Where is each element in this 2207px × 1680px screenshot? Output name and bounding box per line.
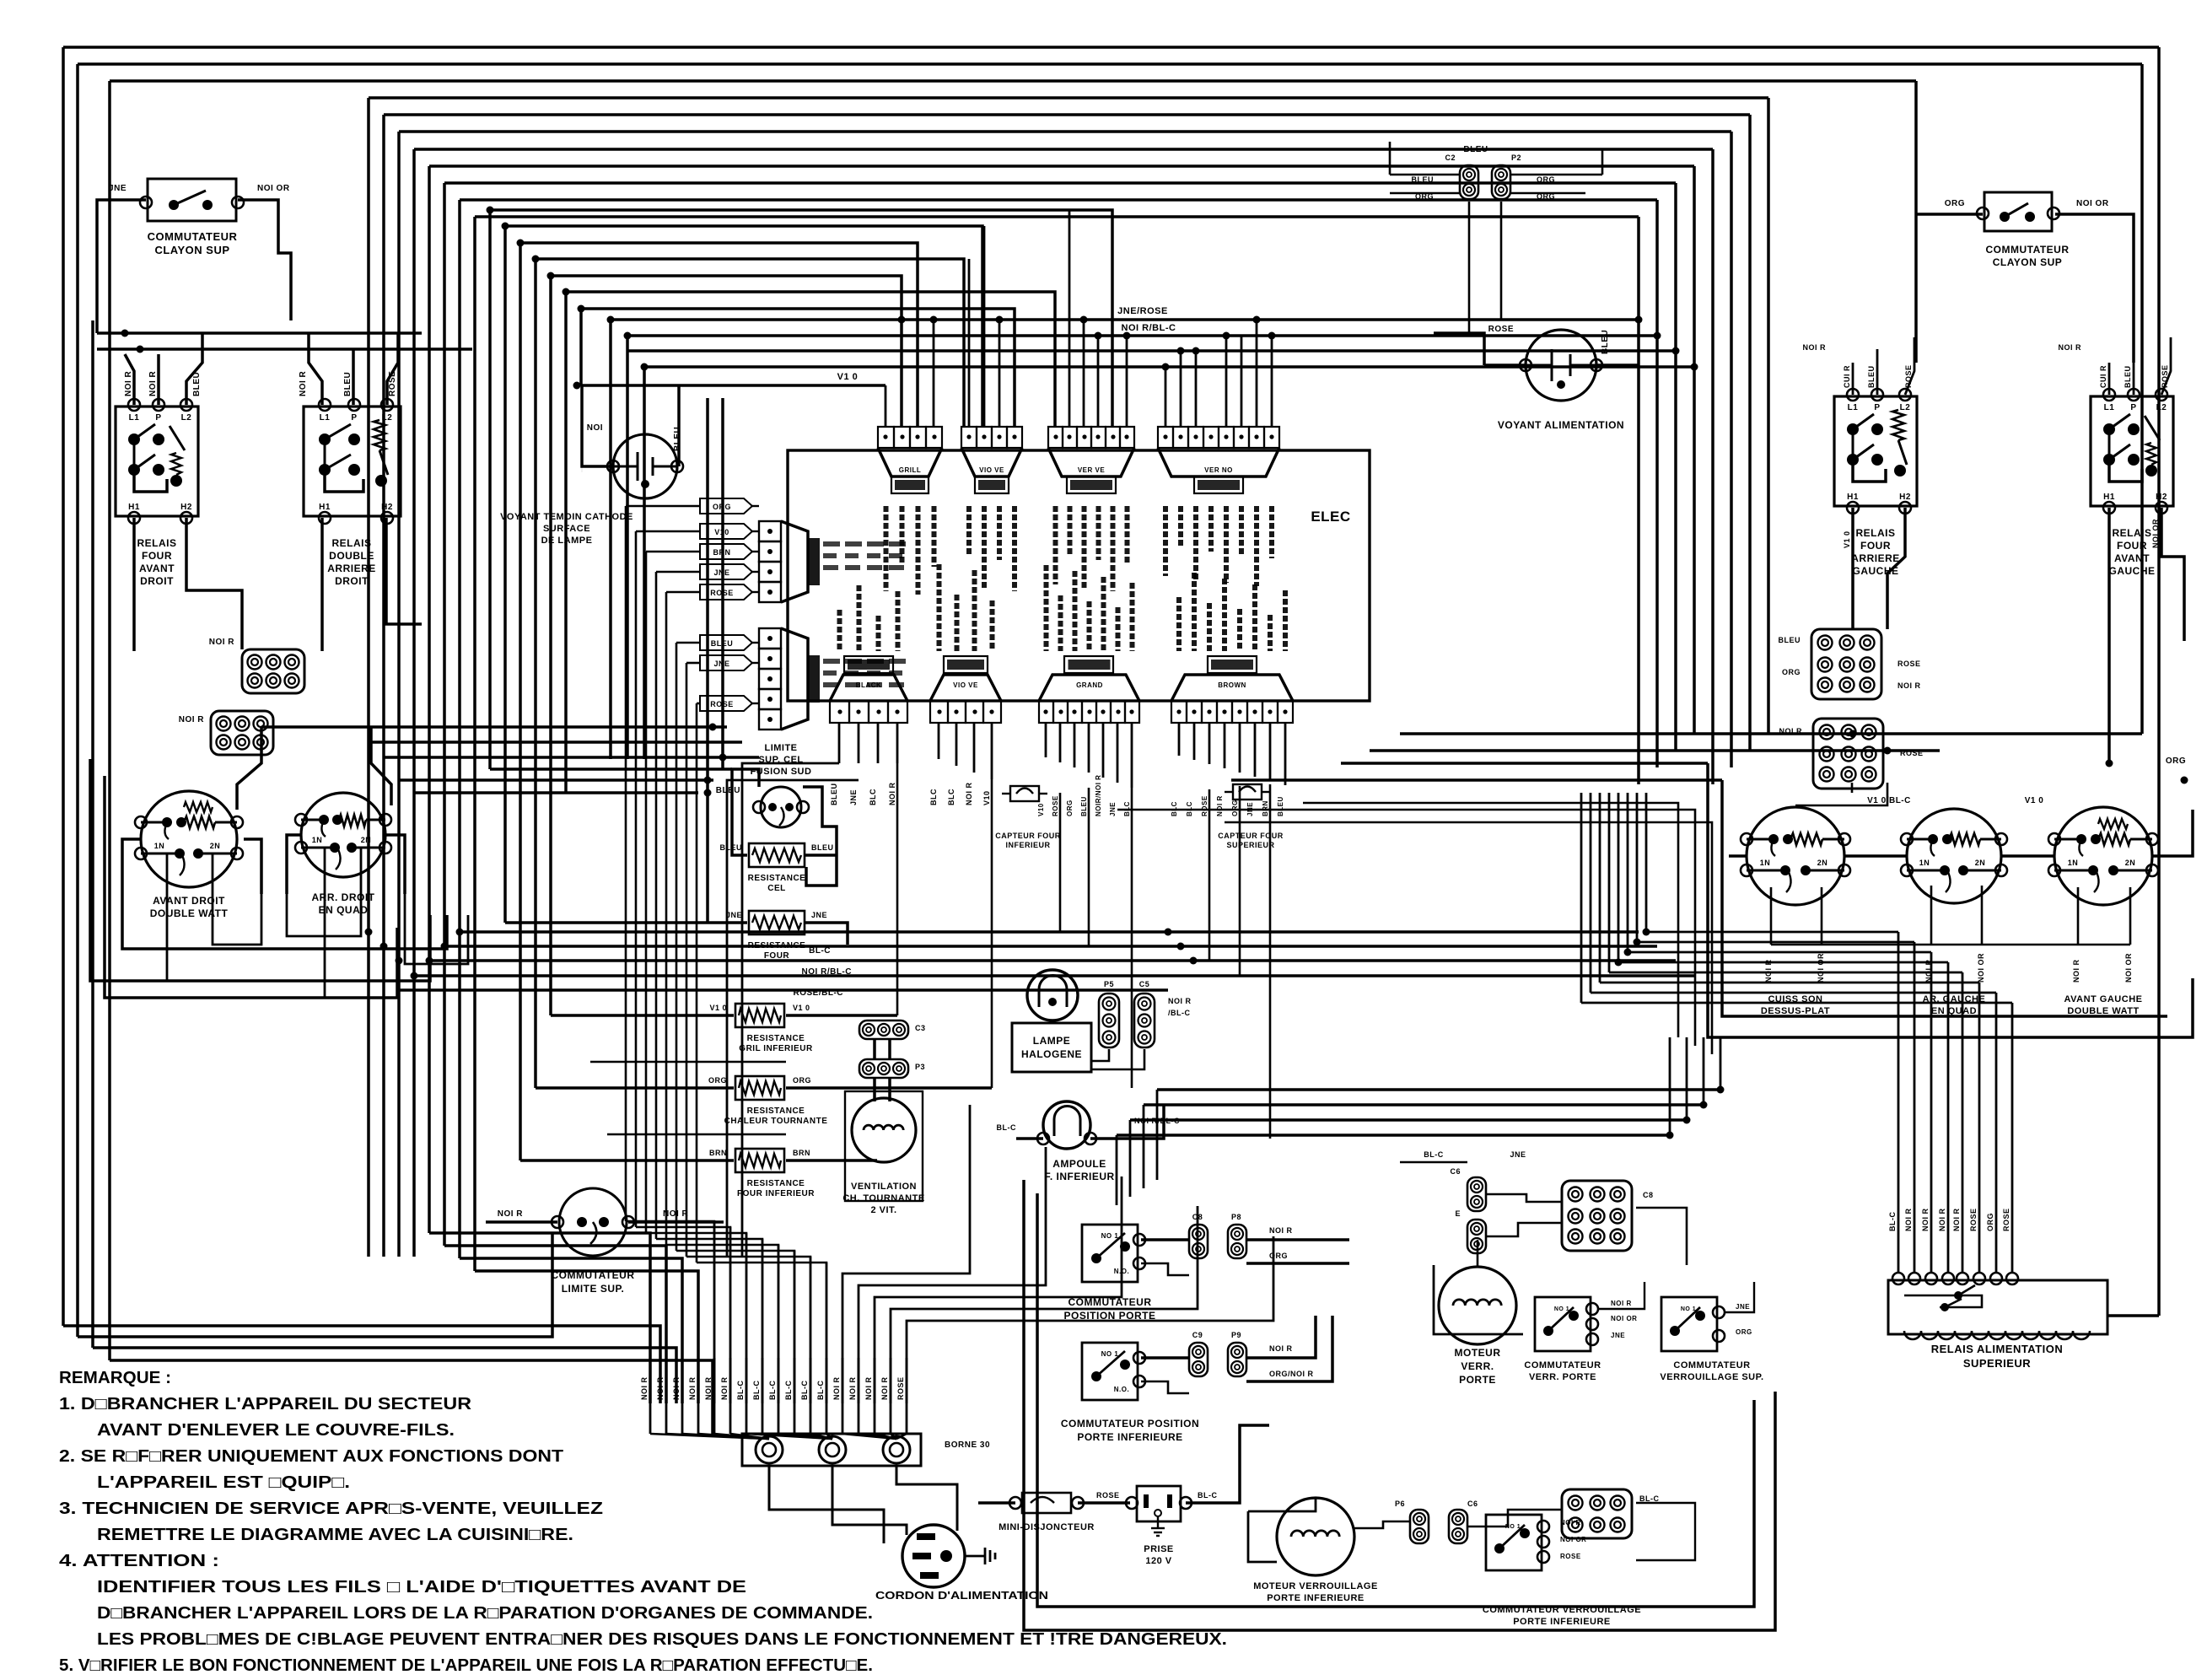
board bottom strips — [830, 701, 849, 723]
svg-text:RELAIS: RELAIS — [2112, 527, 2151, 539]
svg-text:GRILL: GRILL — [899, 466, 922, 474]
svg-text:FOUR INFERIEUR: FOUR INFERIEUR — [737, 1189, 815, 1198]
svg-text:BORNE 30: BORNE 30 — [945, 1440, 990, 1450]
svg-text:VERROUILLAGE SUP.: VERROUILLAGE SUP. — [1660, 1372, 1763, 1382]
svg-text:/BL-C: /BL-C — [1168, 1009, 1191, 1017]
svg-text:NOI R: NOI R — [1216, 795, 1224, 816]
svg-text:COMMUTATEUR: COMMUTATEUR — [1985, 244, 2069, 256]
svg-text:RESISTANCE: RESISTANCE — [747, 1034, 805, 1043]
svg-text:ROSE/BL-C: ROSE/BL-C — [794, 988, 844, 998]
svg-text:CH. TOURNANTE: CH. TOURNANTE — [842, 1193, 924, 1203]
svg-text:COMMUTATEUR: COMMUTATEUR — [1524, 1360, 1601, 1370]
svg-text:PRISE: PRISE — [1144, 1544, 1174, 1554]
wire center vertical bundle mid — [428, 166, 431, 1233]
switch S7 COMMUTATEUR VERROUILLAGE PORTE INFERIEURE — [1486, 1515, 1542, 1570]
wire S4 leads — [1141, 1356, 1189, 1360]
switch S3 COMMUTATEUR POSITION PORTE — [1082, 1225, 1138, 1282]
svg-text:NOI OR: NOI OR — [1977, 953, 1985, 983]
svg-text:NOI R: NOI R — [663, 1209, 689, 1219]
svg-text:ROSE: ROSE — [1969, 1208, 1978, 1231]
resistor R3 RESISTANCE GRIL INFERIEUR — [735, 1004, 784, 1027]
svg-text:BROWN: BROWN — [1218, 681, 1246, 689]
svg-text:P3: P3 — [915, 1063, 925, 1071]
svg-text:2. SE R□F□RER UNIQUEMENT AUX: 2. SE R□F□RER UNIQUEMENT AUX FONCTIONS D… — [59, 1447, 563, 1466]
svg-text:FOUR: FOUR — [1860, 540, 1891, 552]
svg-text:BLEU: BLEU — [1277, 796, 1284, 816]
svg-text:CUI R: CUI R — [1843, 365, 1851, 388]
svg-text:L2: L2 — [382, 413, 393, 423]
wire bundle verticals — [649, 1358, 652, 1434]
svg-text:NOI OR: NOI OR — [1817, 953, 1825, 983]
wire relay right bottoms — [1851, 508, 1854, 629]
outlet PRISE 120V — [1137, 1486, 1181, 1521]
svg-text:AVANT D'ENLEVER LE COUVRE-FILS: AVANT D'ENLEVER LE COUVRE-FILS. — [97, 1421, 455, 1440]
svg-text:P2: P2 — [1511, 153, 1521, 162]
wire mid horizontal buses right of board — [1400, 732, 2142, 735]
svg-text:NOI R: NOI R — [179, 715, 205, 724]
wire V10 line to S1 — [582, 384, 885, 387]
svg-text:BLC: BLC — [947, 789, 955, 805]
element E5 AVANT GAUCHE DOUBLE WATT — [2054, 807, 2152, 905]
svg-text:LES PROBL□MES DE C!BLAGE PEUVE: LES PROBL□MES DE C!BLAGE PEUVENT ENTRA□N… — [97, 1630, 1227, 1649]
svg-text:JNE: JNE — [1611, 1332, 1625, 1339]
switch S2 COMMUTATEUR LIMITE SUP — [559, 1188, 627, 1256]
svg-text:AVANT GAUCHE: AVANT GAUCHE — [2064, 994, 2143, 1004]
svg-text:H1: H1 — [128, 503, 140, 512]
svg-text:L1: L1 — [1848, 403, 1859, 412]
wire routes under board to left — [742, 763, 839, 1257]
svg-text:ORG: ORG — [1066, 800, 1074, 816]
wire bottom strips to right side — [1303, 803, 1678, 1037]
wire staircase horizontals to board top pins — [490, 210, 1112, 427]
connector J7 6-pin — [1562, 1489, 1632, 1538]
svg-text:NOI R: NOI R — [640, 1376, 649, 1400]
svg-text:P: P — [155, 413, 161, 423]
svg-text:NOI R: NOI R — [1952, 1208, 1961, 1231]
svg-text:RELAIS ALIMENTATION: RELAIS ALIMENTATION — [1931, 1343, 2064, 1355]
wire element enclosure left — [90, 759, 430, 981]
svg-text:ROSE: ROSE — [1488, 325, 1514, 334]
wire J7 to right — [1636, 1503, 1695, 1560]
resistor R5 RESISTANCE FOUR INFERIEUR — [735, 1149, 784, 1172]
svg-text:V10: V10 — [982, 790, 991, 805]
svg-text:VER NO: VER NO — [1204, 466, 1233, 474]
board left connector stacks — [759, 521, 781, 541]
wire S3 leads — [1141, 1238, 1189, 1241]
svg-text:ARRIERE: ARRIERE — [327, 563, 376, 574]
wire J8-J9 links — [1795, 783, 1887, 805]
svg-text:RESISTANCE: RESISTANCE — [747, 1179, 805, 1188]
svg-text:CUI R: CUI R — [2099, 365, 2107, 388]
svg-text:AMPOULE: AMPOULE — [1052, 1158, 1106, 1170]
wire motor3 leads — [1354, 1521, 1410, 1528]
svg-text:SURFACE: SURFACE — [543, 524, 590, 534]
svg-text:L1: L1 — [320, 413, 331, 423]
svg-text:120 V: 120 V — [1145, 1556, 1171, 1566]
wire prise to right — [1186, 1425, 1269, 1503]
wire fan region — [873, 1039, 876, 1059]
svg-text:P8: P8 — [1231, 1213, 1241, 1221]
wire S5/S6 leads — [1598, 1282, 1644, 1309]
svg-text:4. ATTENTION :: 4. ATTENTION : — [59, 1552, 219, 1570]
svg-text:NOI R: NOI R — [848, 1376, 857, 1400]
svg-text:BL-C: BL-C — [816, 1381, 825, 1401]
svg-text:ROSE: ROSE — [896, 1376, 905, 1400]
breaker CB1 MINI-DISJONCTEUR — [1022, 1493, 1071, 1513]
svg-text:LAMPE: LAMPE — [1033, 1035, 1071, 1047]
svg-text:NOI R: NOI R — [864, 1376, 873, 1400]
control board U1 ELEC outline — [788, 450, 1370, 701]
svg-text:P5: P5 — [1104, 980, 1114, 988]
connector P2 6-pin — [211, 711, 273, 755]
svg-text:AVANT DROIT: AVANT DROIT — [153, 895, 225, 907]
thermal cutoff F1 LIMITE SUP CEL FUSION SUD — [761, 787, 801, 827]
svg-text:ROSE: ROSE — [2161, 364, 2169, 388]
svg-text:JNE: JNE — [109, 184, 126, 193]
wire S1 leads — [110, 198, 146, 202]
svg-text:2N: 2N — [1975, 859, 1986, 867]
svg-text:1. D□BRANCHER L'APPAREIL DU S: 1. D□BRANCHER L'APPAREIL DU SECTEUR — [59, 1395, 472, 1413]
svg-text:JNE: JNE — [811, 911, 827, 919]
svg-text:ORG: ORG — [1782, 668, 1801, 676]
svg-text:JNE: JNE — [1736, 1303, 1750, 1311]
wire right element enclosures — [1708, 763, 2193, 1037]
connector P1 6-pin — [242, 649, 304, 693]
svg-text:COMMUTATEUR: COMMUTATEUR — [551, 1269, 634, 1281]
svg-text:NOI OR: NOI OR — [257, 184, 290, 193]
svg-text:BL-C: BL-C — [809, 946, 831, 956]
svg-text:V1 0/BL-C: V1 0/BL-C — [1867, 796, 1911, 805]
relay K2 RELAIS DOUBLE ARRIERE DROIT — [304, 407, 401, 516]
pilot DS1 VOYANT TEMOIN CATHODE SURFACE — [613, 434, 677, 498]
ground G1 — [965, 1555, 985, 1558]
svg-text:COMMUTATEUR: COMMUTATEUR — [1068, 1296, 1151, 1308]
wire relay right fans — [1852, 363, 1854, 395]
svg-text:NOI R/BL-C: NOI R/BL-C — [1122, 323, 1176, 333]
svg-text:V1 0: V1 0 — [1843, 530, 1851, 548]
element E3 CUISSON DESSUS-PLAT — [1747, 807, 1844, 905]
svg-text:H2: H2 — [2156, 493, 2167, 502]
svg-text:NOI R: NOI R — [2058, 343, 2081, 352]
svg-text:1N: 1N — [2068, 859, 2079, 867]
svg-text:BLEU: BLEU — [1412, 175, 1435, 184]
svg-text:RELAIS: RELAIS — [1855, 527, 1895, 539]
svg-text:ROSE: ROSE — [1904, 364, 1913, 388]
wire bundle fans — [650, 1434, 769, 1439]
svg-text:BL-C: BL-C — [997, 1123, 1017, 1132]
svg-text:CUISS SON: CUISS SON — [1768, 994, 1822, 1004]
wire resistor leads — [551, 1014, 734, 1017]
resistor R4 RESISTANCE CHALEUR TOURNANTE — [735, 1076, 784, 1100]
svg-text:FOUR: FOUR — [764, 951, 790, 961]
svg-text:BRN: BRN — [1262, 800, 1269, 816]
svg-text:VOYANT ALIMENTATION: VOYANT ALIMENTATION — [1498, 419, 1624, 431]
svg-text:N.O.: N.O. — [1114, 1386, 1129, 1393]
wire top horizontal bus — [63, 46, 2159, 49]
svg-text:NOI OR: NOI OR — [2124, 953, 2133, 983]
svg-text:DOUBLE WATT: DOUBLE WATT — [150, 907, 229, 919]
svg-text:BL-C: BL-C — [736, 1381, 745, 1401]
svg-text:NOI R: NOI R — [672, 1376, 681, 1400]
wire S8 leads — [1916, 213, 1983, 216]
svg-text:5. V□RIFIER LE BON FONCTIONNE: 5. V□RIFIER LE BON FONCTIONNEMENT DE L'A… — [59, 1656, 873, 1675]
svg-text:GRIL INFERIEUR: GRIL INFERIEUR — [739, 1044, 813, 1053]
svg-text:ROSE: ROSE — [2002, 1208, 2011, 1231]
wire bottom left horizontals — [63, 1326, 660, 1403]
connector top 2pins C2 P2 — [1460, 165, 1478, 199]
svg-text:ARR. DROIT: ARR. DROIT — [312, 891, 375, 903]
svg-text:NOI R/BL-C: NOI R/BL-C — [802, 967, 852, 977]
svg-text:DE LAMPE: DE LAMPE — [541, 536, 593, 546]
svg-text:L'APPAREIL EST □QUIP□.: L'APPAREIL EST □QUIP□. — [97, 1473, 350, 1492]
svg-text:VOYANT TEMOIN CATHODE: VOYANT TEMOIN CATHODE — [500, 512, 633, 522]
svg-text:BLC: BLC — [929, 789, 938, 805]
terminal block TB1 — [742, 1434, 921, 1466]
connector J4 3-pin fan lower — [859, 1059, 908, 1078]
svg-text:ELEC: ELEC — [1311, 509, 1350, 525]
svg-text:VIO VE: VIO VE — [953, 681, 978, 689]
svg-text:H1: H1 — [1847, 493, 1859, 502]
svg-text:REMETTRE LE DIAGRAMME AVEC LA: REMETTRE LE DIAGRAMME AVEC LA CUISINI□RE… — [97, 1526, 573, 1544]
connector J6 9-pin door lock — [1562, 1181, 1632, 1251]
svg-text:RELAIS: RELAIS — [137, 537, 176, 549]
svg-text:NOI R: NOI R — [1802, 343, 1826, 352]
svg-text:BL-C: BL-C — [768, 1381, 777, 1401]
svg-text:NOI R: NOI R — [1904, 1208, 1913, 1231]
svg-text:BLEU: BLEU — [1080, 796, 1088, 816]
wire J6 leads — [1486, 1194, 1562, 1202]
svg-text:ROSE: ROSE — [1897, 660, 1921, 668]
wire cutoff loops — [732, 769, 759, 855]
svg-text:PORTE: PORTE — [1459, 1374, 1496, 1386]
wire limite sup leads — [486, 1220, 557, 1224]
svg-text:RESISTANCE: RESISTANCE — [748, 941, 806, 950]
svg-text:COMMUTATEUR: COMMUTATEUR — [148, 230, 238, 243]
svg-text:ROSE: ROSE — [1096, 1491, 1120, 1500]
wire right bundle descends — [1767, 98, 1770, 734]
svg-text:NOI R: NOI R — [656, 1376, 665, 1400]
lamp DS3 AMPOULE F INFERIEUR — [1043, 1101, 1090, 1149]
svg-text:L1: L1 — [129, 413, 140, 423]
svg-text:F. INFERIEUR: F. INFERIEUR — [1044, 1171, 1114, 1182]
relay K5 RELAIS FOUR AVANT GAUCHE — [2091, 396, 2173, 506]
svg-text:NOI R: NOI R — [832, 1376, 841, 1400]
svg-text:ORG: ORG — [1537, 175, 1555, 184]
svg-text:CHALEUR TOURNANTE: CHALEUR TOURNANTE — [724, 1117, 828, 1126]
svg-text:C9: C9 — [1192, 1331, 1203, 1339]
svg-text:2 VIT.: 2 VIT. — [870, 1205, 896, 1215]
svg-text:ORG: ORG — [1986, 1213, 1994, 1231]
svg-text:C8: C8 — [1643, 1191, 1654, 1199]
wire breaker leads — [978, 1501, 1015, 1505]
svg-text:NOI R: NOI R — [1764, 959, 1773, 983]
wire center horizontals to elements — [261, 725, 727, 729]
svg-text:1N: 1N — [1760, 859, 1771, 867]
wire pair stubs down to S4 — [1225, 336, 1228, 427]
svg-text:NOI R: NOI R — [688, 1376, 697, 1400]
wire resistor right loops — [590, 1061, 786, 1063]
connector C6 2pin pair upper — [1467, 1177, 1486, 1211]
svg-text:MINI-DISJONCTEUR: MINI-DISJONCTEUR — [999, 1522, 1095, 1532]
svg-text:H2: H2 — [180, 503, 192, 512]
svg-text:NOI R: NOI R — [1921, 1208, 1930, 1231]
svg-text:ROSE: ROSE — [388, 371, 397, 396]
board top strips — [878, 427, 894, 448]
element E2 ARR DROIT EN QUAD — [301, 793, 385, 877]
svg-text:BL-C: BL-C — [1424, 1150, 1444, 1159]
svg-text:NOIR/NOI R: NOIR/NOI R — [1095, 775, 1102, 816]
svg-text:JNE: JNE — [726, 911, 742, 919]
svg-text:BLEU: BLEU — [2124, 366, 2132, 389]
svg-text:PORTE INFERIEURE: PORTE INFERIEURE — [1513, 1617, 1611, 1627]
relay K1 RELAIS FOUR AVANT DROIT — [116, 407, 198, 516]
svg-text:ORG: ORG — [793, 1076, 811, 1085]
svg-text:BLC: BLC — [869, 789, 877, 805]
svg-text:2N: 2N — [1817, 859, 1828, 867]
switch S1 COMMUTATEUR CLAYON SUP (top-left) — [148, 179, 236, 221]
svg-text:N.O.: N.O. — [1114, 1268, 1129, 1275]
svg-text:VIO VE: VIO VE — [979, 466, 1004, 474]
wire board-left leads to bundle — [626, 505, 700, 508]
svg-text:NOI OR: NOI OR — [1560, 1536, 1586, 1543]
svg-text:EN QUAD: EN QUAD — [1931, 1006, 1977, 1016]
svg-text:H2: H2 — [1899, 493, 1911, 502]
svg-text:C6: C6 — [1467, 1500, 1478, 1508]
svg-text:VENTILATION: VENTILATION — [851, 1182, 917, 1192]
svg-text:1N: 1N — [1919, 859, 1930, 867]
svg-text:NO 1: NO 1 — [1101, 1232, 1119, 1240]
svg-text:2N: 2N — [361, 836, 372, 844]
relay K4 RELAIS FOUR ARRIERE GAUCHE — [1834, 396, 1917, 506]
svg-text:NOI: NOI — [587, 423, 603, 433]
svg-text:CEL: CEL — [767, 884, 786, 893]
wire center vertical bundle staircase sources — [488, 210, 492, 769]
svg-text:P6: P6 — [1395, 1500, 1405, 1508]
svg-text:NOI OR: NOI OR — [1611, 1315, 1637, 1322]
svg-text:ORG: ORG — [708, 1076, 727, 1085]
lamp DS2 LAMPE HALOGENE — [1027, 970, 1078, 1020]
relay K3 RELAIS ALIMENTATION SUPERIEUR — [1888, 1280, 2107, 1334]
wire motor2 top lead — [1477, 1240, 1479, 1267]
wire S1-S3 pin risers — [901, 276, 903, 427]
svg-text:NOI R: NOI R — [124, 370, 133, 396]
svg-text:NOI R: NOI R — [1269, 1226, 1293, 1235]
svg-text:P: P — [1874, 403, 1880, 412]
svg-text:BLEU: BLEU — [1601, 330, 1610, 354]
wire left vertical bus — [62, 47, 65, 1326]
svg-text:ROSE: ROSE — [1201, 795, 1208, 816]
wire mid drop verticals near board left — [706, 398, 709, 923]
svg-text:NOI R: NOI R — [1924, 959, 1933, 983]
svg-text:ROSE: ROSE — [1560, 1553, 1581, 1560]
wire voyant leads — [1484, 363, 1526, 367]
wire far right verticals — [2157, 47, 2161, 1316]
board top text columns — [884, 506, 889, 591]
wire G/H drops join horizontals — [1059, 793, 1062, 932]
svg-text:C8: C8 — [1192, 1213, 1203, 1221]
svg-text:JNE: JNE — [1109, 802, 1117, 816]
motor M1 VENTILATION CH TOURNANTE — [852, 1098, 916, 1162]
svg-text:NO 1: NO 1 — [1505, 1524, 1521, 1530]
svg-text:NOI R: NOI R — [720, 1376, 729, 1400]
svg-text:L2: L2 — [1900, 403, 1911, 412]
element E4 AR GAUCHE EN QUAD — [1907, 809, 2001, 903]
svg-text:NOI R: NOI R — [1938, 1208, 1946, 1231]
svg-text:ORG/NOI R: ORG/NOI R — [1269, 1370, 1314, 1378]
svg-text:BL-C: BL-C — [800, 1381, 809, 1401]
svg-text:H1: H1 — [319, 503, 331, 512]
svg-text:D□BRANCHER L'APPAREIL LORS DE: D□BRANCHER L'APPAREIL LORS DE LA R□PARAT… — [97, 1604, 873, 1623]
svg-text:NOI R: NOI R — [299, 370, 308, 396]
svg-text:POSITION PORTE: POSITION PORTE — [1063, 1310, 1155, 1322]
svg-text:RESISTANCE: RESISTANCE — [747, 1107, 805, 1116]
svg-text:BRN: BRN — [793, 1149, 810, 1157]
svg-text:HALOGENE: HALOGENE — [1021, 1048, 1082, 1060]
svg-text:1N: 1N — [154, 842, 165, 850]
svg-text:ORG: ORG — [2166, 757, 2186, 766]
svg-text:NOI R: NOI R — [965, 782, 973, 805]
svg-text:ROSE: ROSE — [1900, 749, 1924, 757]
svg-text:FOUR: FOUR — [142, 550, 172, 562]
svg-text:BLEU: BLEU — [716, 786, 740, 795]
svg-text:BLEU: BLEU — [1463, 145, 1488, 154]
wire relay K3 horizontals to left — [1646, 931, 1898, 934]
svg-text:L2: L2 — [181, 413, 192, 423]
svg-text:BL-C: BL-C — [752, 1381, 761, 1401]
svg-text:V1 0: V1 0 — [709, 1004, 727, 1012]
svg-text:NOI R: NOI R — [1168, 997, 1192, 1005]
svg-text:MOTEUR: MOTEUR — [1455, 1347, 1501, 1359]
switch S5 COMMUTATEUR VERR PORTE — [1535, 1297, 1591, 1351]
svg-text:BLEU: BLEU — [1779, 636, 1801, 644]
svg-text:V1 0: V1 0 — [837, 372, 859, 382]
svg-text:NOI R: NOI R — [148, 370, 158, 396]
svg-text:SUPERIEUR: SUPERIEUR — [1963, 1357, 2031, 1370]
element E1 AVANT DROIT DOUBLE WATT — [141, 791, 237, 887]
svg-text:BLEU: BLEU — [192, 372, 202, 396]
wire center vertical bundle long — [367, 98, 370, 1257]
svg-text:NOI R: NOI R — [704, 1376, 713, 1400]
svg-text:P: P — [351, 413, 357, 423]
plug CORDON D ALIMENTATION — [902, 1525, 965, 1587]
svg-text:NOI R: NOI R — [888, 782, 896, 805]
svg-text:CAPTEUR FOUR: CAPTEUR FOUR — [1218, 832, 1284, 840]
svg-text:BL-C: BL-C — [1888, 1212, 1897, 1232]
switch S4 COMMUTATEUR POSITION PORTE INFERIEURE — [1082, 1343, 1138, 1400]
svg-text:BLEU: BLEU — [1867, 366, 1876, 389]
svg-text:JNE/ROSE: JNE/ROSE — [1117, 306, 1168, 316]
junction dots on buses — [487, 207, 494, 214]
svg-text:NOI R: NOI R — [1611, 1300, 1632, 1307]
svg-text:V1 0: V1 0 — [2025, 796, 2044, 805]
svg-text:L2: L2 — [2156, 403, 2167, 412]
svg-text:BLEU: BLEU — [811, 843, 834, 852]
svg-text:H2: H2 — [381, 503, 393, 512]
svg-text:ORG: ORG — [1945, 199, 1965, 208]
svg-text:MOTEUR VERROUILLAGE: MOTEUR VERROUILLAGE — [1253, 1581, 1378, 1591]
svg-text:H1: H1 — [2103, 493, 2115, 502]
connector J3 3-pin fan upper — [859, 1020, 908, 1039]
connector J5 3pin pair near lamp — [1099, 993, 1119, 1047]
wire elements inner links — [166, 854, 169, 981]
svg-text:ROSE: ROSE — [1052, 795, 1059, 816]
svg-text:COMMUTATEUR: COMMUTATEUR — [1673, 1360, 1750, 1370]
svg-text:2N: 2N — [210, 842, 221, 850]
sensor X2 CAPTEUR FOUR SUPERIEUR — [1233, 784, 1262, 800]
svg-text:NOI R: NOI R — [1269, 1344, 1293, 1353]
connector J9 9-pin right mid — [1813, 719, 1883, 789]
svg-text:ORG: ORG — [1231, 800, 1239, 816]
